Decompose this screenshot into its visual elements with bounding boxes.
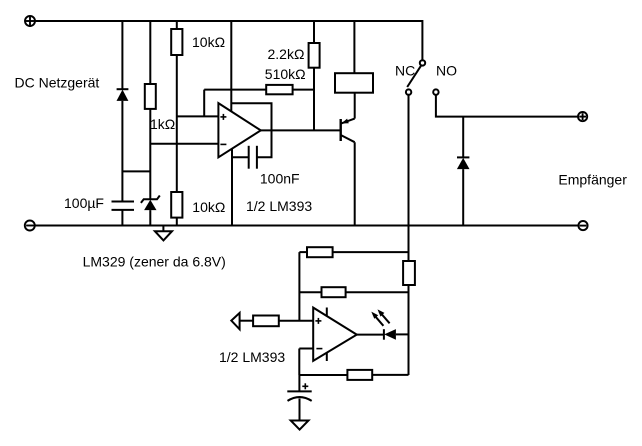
svg-text:DC Netzgerät: DC Netzgerät (15, 74, 100, 90)
svg-text:10kΩ: 10kΩ (192, 199, 225, 215)
svg-text:Empfänger: Empfänger (558, 171, 627, 187)
svg-text:10kΩ: 10kΩ (192, 34, 225, 50)
svg-text:NO: NO (436, 63, 457, 79)
svg-text:510kΩ: 510kΩ (265, 66, 306, 82)
svg-text:1/2 LM393: 1/2 LM393 (246, 198, 312, 214)
svg-text:1kΩ: 1kΩ (150, 116, 175, 132)
svg-text:100nF: 100nF (260, 171, 300, 187)
svg-text:100µF: 100µF (64, 195, 104, 211)
svg-text:NC: NC (395, 63, 415, 79)
svg-text:2.2kΩ: 2.2kΩ (268, 46, 305, 62)
svg-text:1/2 LM393: 1/2 LM393 (219, 349, 285, 365)
svg-text:LM329 (zener da 6.8V): LM329 (zener da 6.8V) (83, 254, 226, 270)
